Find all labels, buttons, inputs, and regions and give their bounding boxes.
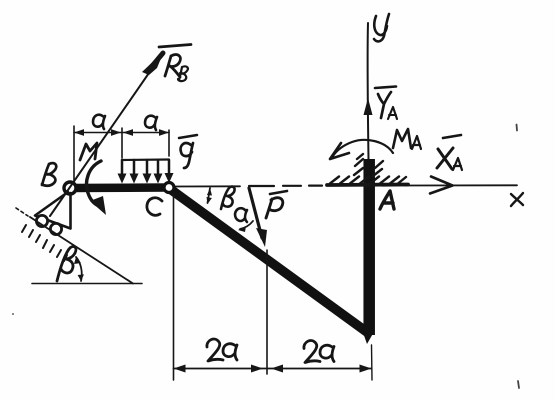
label M_A	[393, 129, 411, 148]
bottom extension line right (below member tip)	[371, 345, 374, 380]
X_A label overline	[443, 135, 461, 138]
moment M_A arc	[333, 140, 393, 156]
wire: dashed part	[249, 185, 322, 188]
moment M arc at B	[87, 161, 101, 206]
R_B label overline	[159, 45, 191, 48]
bottom extension line left (from C)	[173, 193, 175, 380]
Y_A label overline	[375, 87, 396, 89]
support A hatching	[330, 177, 406, 184]
x axis	[404, 184, 517, 186]
pin C	[164, 183, 174, 193]
distributed load bar	[122, 158, 169, 161]
dim arrowheads bottom	[174, 365, 372, 373]
support bracket at B	[35, 192, 71, 229]
scan speck	[12, 313, 14, 315]
label M	[80, 143, 97, 160]
label q overline	[179, 135, 197, 138]
top dimension extension lines	[74, 126, 169, 184]
label y	[374, 14, 389, 41]
label 2a (left): letter a	[223, 344, 237, 360]
reaction Y_A arrowhead	[364, 98, 373, 115]
label A subscript (M_A)	[412, 136, 421, 149]
horizontal reference line for beta	[32, 283, 142, 285]
dimension line a-a	[74, 132, 169, 134]
angle beta small arrow at C	[208, 188, 211, 203]
dimension line 2a-2a	[174, 368, 372, 370]
M_A arrowhead	[330, 143, 349, 159]
label beta (support)	[57, 246, 76, 281]
label alpha	[235, 208, 247, 222]
label A subscript (X)	[453, 158, 462, 170]
member C diagonal	[166, 186, 368, 333]
angle alpha arrow	[240, 221, 253, 229]
wire: line C to A solid part	[174, 185, 240, 187]
label beta (at C)	[221, 187, 235, 209]
label a (left)	[93, 115, 105, 129]
label P	[266, 198, 283, 218]
label C	[147, 198, 162, 216]
label B	[42, 163, 56, 186]
reaction R_B line	[50, 57, 160, 216]
member A bottom tip	[364, 330, 376, 344]
bottom extension line middle	[266, 250, 268, 374]
beam B-C	[70, 183, 169, 192]
dim arrowheads	[74, 129, 169, 136]
load arrowheads	[118, 173, 174, 184]
y axis	[367, 23, 370, 160]
label 2a (right): letter a	[320, 345, 334, 361]
label q	[181, 143, 193, 168]
moment M arrowhead	[90, 196, 106, 215]
force P line	[249, 188, 262, 238]
label X	[437, 148, 453, 169]
roller 1	[36, 215, 47, 226]
x axis arrowhead	[430, 177, 453, 194]
scan speck	[516, 125, 519, 131]
label B subscript	[178, 66, 188, 81]
label R	[165, 55, 180, 77]
beta angle arc at B support	[76, 257, 82, 281]
label A subscript (Y)	[388, 107, 397, 119]
label Y	[378, 92, 391, 118]
label A	[380, 191, 394, 209]
hatch marks under incline	[22, 225, 67, 261]
support A baseline	[327, 183, 408, 187]
scan speck	[518, 381, 519, 388]
P label overline	[270, 191, 287, 194]
load stems	[122, 160, 169, 176]
R_B arrowhead	[142, 51, 164, 75]
roller 2	[50, 223, 61, 234]
inclined surface line	[30, 217, 133, 284]
pin B	[64, 182, 76, 194]
label 2a (left): digit 2	[207, 339, 223, 361]
label 2a (right): digit 2	[304, 341, 320, 363]
label a (right)	[145, 116, 157, 130]
member A vertical	[363, 159, 375, 335]
P arrowhead	[256, 228, 267, 247]
label x	[511, 193, 523, 206]
